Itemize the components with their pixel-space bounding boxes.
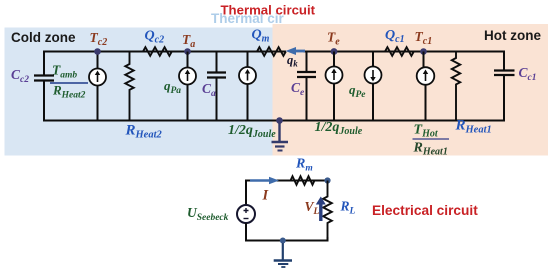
- svg-text:Hot zone: Hot zone: [484, 28, 541, 43]
- wire source3 lower: [247, 84, 249, 122]
- wire Ca lower: [216, 78, 218, 122]
- node Ta: [184, 48, 191, 55]
- resistor Rm: [291, 176, 315, 185]
- arrow qk: [286, 47, 306, 55]
- ground electrical: [274, 243, 292, 267]
- voltage source USeebeck: [237, 205, 255, 223]
- wire source6 upper: [423, 52, 425, 68]
- capacitor Ce: [297, 72, 316, 77]
- node Te: [331, 48, 338, 55]
- wire source4 lower: [333, 84, 335, 122]
- svg-text:I: I: [262, 188, 270, 204]
- resistor Qm: [257, 47, 286, 56]
- node ground thermal: [276, 117, 283, 124]
- resistor Qc1: [385, 47, 414, 56]
- wire Ce lower: [306, 78, 308, 122]
- resistor Qc2: [143, 47, 172, 56]
- node ground electrical: [280, 238, 286, 244]
- resistor vertical cold: [125, 52, 133, 122]
- wire top rail: [44, 51, 286, 53]
- wire top electrical: [246, 181, 328, 206]
- wire Ca upper: [216, 52, 218, 73]
- wire source4 upper: [333, 52, 335, 67]
- capacitor Ca: [207, 73, 226, 78]
- wire source5 upper: [372, 52, 374, 67]
- cold zone background: [5, 28, 273, 156]
- current source hot left: [326, 67, 343, 84]
- svg-text:Cold zone: Cold zone: [11, 30, 76, 45]
- wire source2 upper: [187, 52, 189, 68]
- fraction bar: [50, 82, 88, 84]
- wire left rail upper: [43, 51, 45, 76]
- svg-text:Electrical circuit: Electrical circuit: [372, 203, 478, 218]
- current source half qJoule cold: [239, 67, 256, 84]
- current source Tamb/RHeat2: [89, 69, 106, 86]
- wire bottom electrical: [246, 223, 328, 241]
- wire source6 lower: [425, 85, 427, 122]
- wire source5 lower: [372, 84, 374, 122]
- fraction bar hot: [413, 138, 450, 140]
- capacitor Cc1: [494, 71, 515, 76]
- current source THot/RHeat1: [417, 67, 435, 85]
- wire right rail upper: [503, 51, 505, 71]
- wire right rail lower: [503, 76, 505, 122]
- wire source3 upper: [247, 52, 249, 68]
- node Tc2: [94, 48, 101, 55]
- node Rm right: [324, 177, 330, 183]
- svg-text:VL: VL: [305, 199, 320, 217]
- wire bottom rail: [44, 120, 504, 122]
- arrow VL: [316, 197, 326, 222]
- ground thermal: [272, 123, 289, 151]
- svg-text:Thermal circuit: Thermal circuit: [221, 3, 316, 18]
- wire left rail lower: [43, 81, 45, 122]
- arrow I: [250, 177, 279, 185]
- current source qPa: [179, 68, 196, 85]
- svg-text:USeebeck: USeebeck: [187, 205, 229, 223]
- wire source1 upper: [97, 52, 99, 69]
- capacitor Cc2: [34, 76, 54, 81]
- hot zone background: [273, 24, 549, 156]
- current source qPe down: [365, 67, 382, 84]
- wire source2 lower: [187, 85, 189, 122]
- node Tc1: [420, 48, 427, 55]
- wire source1 lower: [97, 86, 99, 122]
- wire Ce upper: [306, 52, 308, 72]
- resistor RL: [323, 181, 332, 241]
- svg-text:Rm: Rm: [295, 157, 313, 174]
- resistor RHeat1 vertical: [452, 52, 460, 122]
- svg-text:RL: RL: [340, 199, 356, 217]
